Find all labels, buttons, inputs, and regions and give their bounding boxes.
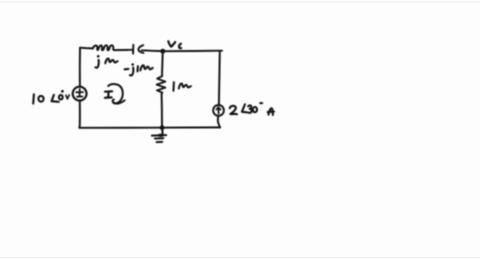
wire capacitor to node [142, 49, 163, 52]
wire below voltage source [78, 101, 81, 128]
wire node to resistor [161, 54, 164, 77]
current source I1 arrow [216, 107, 220, 114]
wire top-left vertical [79, 48, 81, 87]
wire bottom horizontal [79, 126, 220, 128]
frame edge bottom [0, 257, 480, 258]
wire inductor to capacitor [115, 49, 133, 51]
ground symbol [152, 128, 166, 142]
label 10∠0° V [33, 90, 69, 104]
label -j1Ω [125, 63, 153, 75]
current source I1 circle [213, 105, 224, 116]
wire current source to bottom corner [218, 116, 220, 128]
label 1Ω [173, 82, 191, 91]
inductor L1 jΩ [93, 45, 115, 50]
label jΩ [96, 55, 118, 68]
voltage source V1 plus-minus [76, 89, 83, 97]
junction dot at ground [160, 125, 165, 130]
wire top-left horizontal to inductor [80, 47, 93, 50]
capacitor C1 right plate [138, 45, 143, 53]
label Vc [168, 41, 181, 48]
frame edge top [0, 2, 480, 3]
wire node to top-right corner [165, 50, 222, 53]
node Vc junction dot [160, 49, 165, 54]
loop current I clockwise arrow [108, 84, 124, 104]
wire resistor to bottom [161, 94, 163, 127]
resistor R1 zigzag [157, 76, 166, 94]
capacitor C1 left plate [132, 45, 134, 54]
voltage source V1 circle [73, 87, 87, 101]
loop current I label [105, 91, 112, 98]
label 2∠30° A [230, 102, 274, 115]
wire right vertical [218, 51, 221, 105]
